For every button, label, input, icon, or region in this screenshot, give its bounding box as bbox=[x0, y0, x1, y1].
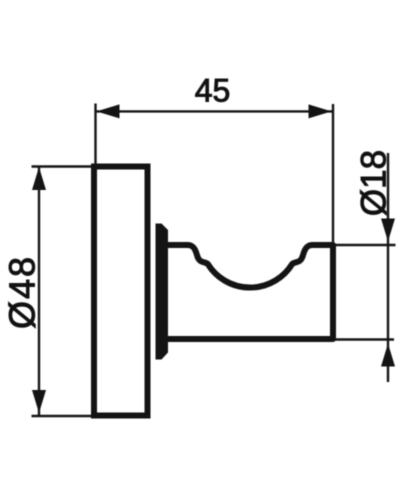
dim O48: extension line bottom bbox=[32, 415, 93, 417]
dim O18: extension line bottom bbox=[334, 338, 394, 340]
dim 45: arrow right bbox=[309, 104, 332, 118]
dim O18: arrow top pointing down bbox=[381, 219, 395, 242]
dim 45: extension line left bbox=[94, 104, 96, 166]
dim 45: extension line right bbox=[332, 104, 334, 243]
dim O18: arrow bottom pointing up bbox=[381, 344, 395, 367]
dim 45: arrow left bbox=[97, 104, 120, 118]
dim O48: arrow top bbox=[32, 167, 46, 190]
wall plate bbox=[94, 167, 148, 416]
dim O48: dimension line bbox=[38, 167, 40, 416]
collar bbox=[156, 224, 169, 360]
dim O18: dimension line bbox=[387, 153, 389, 382]
dim O18: extension line top bbox=[334, 244, 396, 246]
svg-text:45: 45 bbox=[195, 73, 231, 109]
hook arm bbox=[165, 245, 333, 339]
svg-text:Ø18: Ø18 bbox=[355, 150, 394, 216]
dim O48: arrow bottom bbox=[32, 390, 46, 413]
svg-text:Ø48: Ø48 bbox=[2, 255, 43, 329]
dim 45: dimension line bbox=[96, 110, 332, 112]
dim O48: extension line top bbox=[32, 165, 93, 167]
